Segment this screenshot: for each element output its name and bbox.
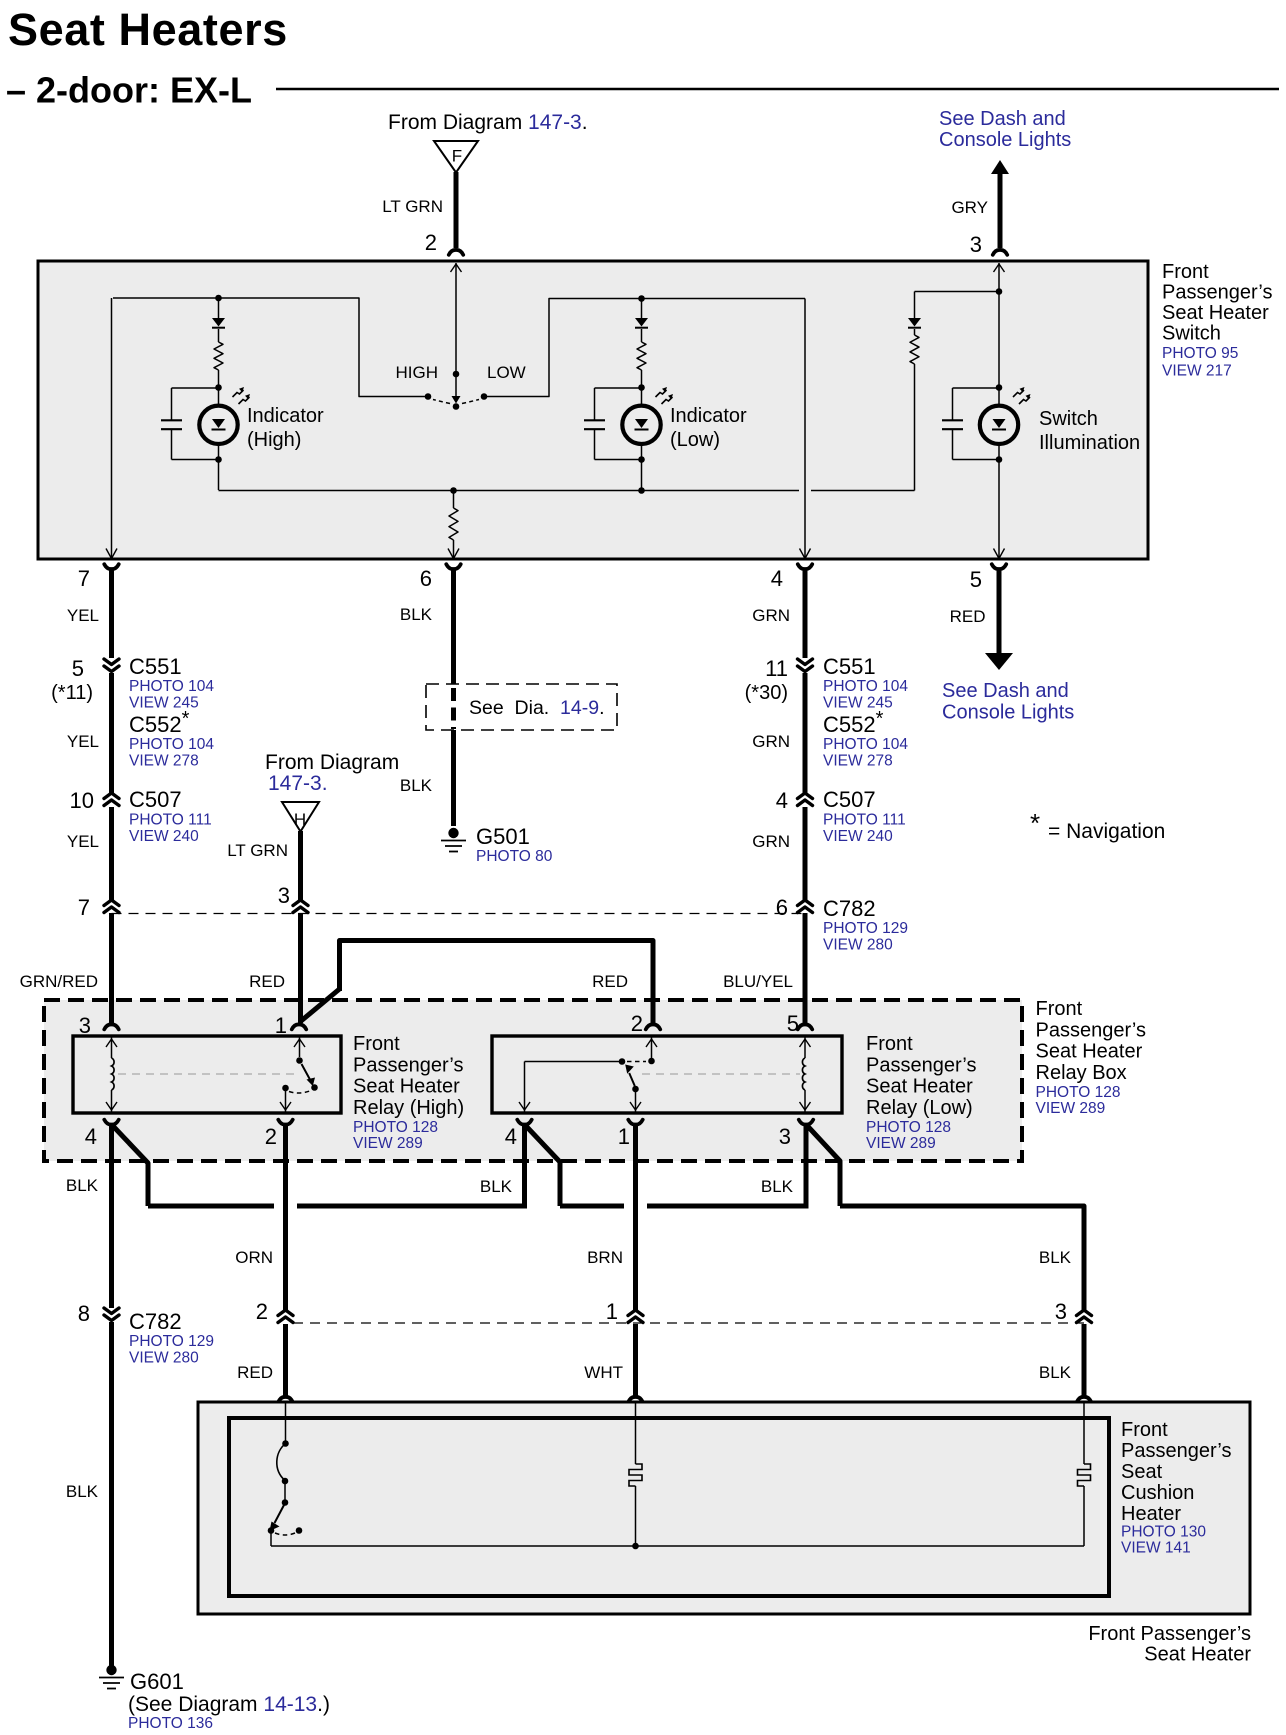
svg-text:– 2-door: EX-L: – 2-door: EX-L: [6, 70, 252, 111]
svg-text:Passenger’s: Passenger’s: [353, 1054, 463, 1076]
svg-text:C551: C551: [823, 654, 876, 679]
svg-text:See Dash and: See Dash and: [942, 680, 1069, 702]
junction node indicator high: [215, 295, 222, 302]
connector F (from diagram 147-3): [434, 141, 478, 173]
svg-text:Front: Front: [353, 1033, 400, 1055]
connector line C782 (dashed): [112, 913, 806, 915]
labels G501 / PHOTO 80: [476, 824, 553, 865]
wire BLK relay low pin 3 drop: [761, 1125, 806, 1209]
labels C507: [129, 787, 212, 845]
svg-text:Switch: Switch: [1039, 408, 1098, 430]
svg-text:YEL: YEL: [67, 606, 99, 625]
svg-text:3: 3: [970, 232, 982, 257]
connector C782 pin 3: [1055, 1299, 1092, 1324]
wire BLK relay low pin 4 jumper to relay low pin 3: [526, 1126, 807, 1206]
wire BLK C782 pin 8 to G601: [66, 1322, 112, 1666]
connector C782 pin 3: [278, 883, 308, 913]
svg-text:Seat Heater: Seat Heater: [1162, 302, 1269, 324]
wire RED relay high pin 1 to relay low pin 2: [301, 941, 653, 1024]
svg-text:VIEW 280: VIEW 280: [129, 1350, 199, 1367]
terminal relay low pin 1: [628, 1120, 642, 1125]
wire pin 7 vertical (inside switch): [106, 298, 117, 559]
terminal at switch pin 3: [993, 250, 1007, 255]
svg-text:HIGH: HIGH: [396, 363, 439, 382]
wire RED switch pin 5 to dash/console lights: [950, 564, 1013, 670]
svg-text:Cushion: Cushion: [1121, 1482, 1194, 1504]
terminal at switch pin 2: [449, 250, 463, 255]
svg-text:PHOTO 104: PHOTO 104: [129, 736, 214, 753]
wire LOW contact to pin 4 branch: [484, 299, 805, 397]
svg-text:Seat Heaters: Seat Heaters: [8, 4, 288, 55]
svg-text:Front: Front: [866, 1033, 913, 1055]
svg-text:Seat Heater: Seat Heater: [353, 1076, 460, 1098]
svg-text:7: 7: [78, 566, 90, 591]
svg-text:(*11): (*11): [51, 682, 93, 704]
front passenger's seat heater box (outer): [198, 1402, 1250, 1614]
connector H (from diagram 147-3): [282, 802, 319, 832]
wire pin 4 vertical (inside switch): [800, 299, 811, 559]
label Indicator (Low): [670, 405, 747, 451]
wire GRY to switch pin 3: [998, 172, 1003, 248]
relay low coil-contact link (dashed): [642, 1073, 800, 1075]
svg-text:RED: RED: [950, 607, 986, 626]
svg-text:C552*: C552*: [129, 708, 190, 737]
wire GRN/RED C782 to relay high pin 3: [20, 913, 112, 1023]
svg-text:6: 6: [420, 566, 432, 591]
svg-text:*: *: [1030, 808, 1040, 838]
svg-text:11: 11: [765, 656, 788, 681]
ground G501: [441, 828, 466, 852]
svg-text:BLU/YEL: BLU/YEL: [723, 972, 793, 991]
svg-text:G501: G501: [476, 824, 530, 849]
heater element (main): [629, 1402, 642, 1546]
relay high coil: [106, 1038, 117, 1112]
labels C782 (right): [823, 896, 908, 954]
label Indicator (High): [247, 405, 324, 451]
svg-text:VIEW 278: VIEW 278: [823, 753, 893, 770]
svg-text:VIEW 289: VIEW 289: [866, 1135, 936, 1152]
svg-text:LT GRN: LT GRN: [227, 841, 288, 860]
labels C782 (lower): [129, 1309, 214, 1367]
svg-text:4: 4: [505, 1124, 517, 1149]
title: Seat Heaters: [8, 4, 288, 55]
label: Front Passenger's Seat Cushion Heater: [1121, 1419, 1231, 1557]
svg-text:PHOTO 128: PHOTO 128: [866, 1119, 951, 1136]
front passenger's seat cushion heater box (inner): [229, 1418, 1109, 1596]
svg-text:Seat Heater: Seat Heater: [1144, 1644, 1251, 1666]
svg-text:(Low): (Low): [670, 429, 720, 451]
svg-text:Front: Front: [1162, 261, 1209, 283]
svg-text:1: 1: [618, 1124, 630, 1149]
svg-text:Front: Front: [1121, 1419, 1168, 1441]
svg-text:GRN: GRN: [752, 832, 790, 851]
svg-text:4: 4: [771, 566, 783, 591]
svg-text:10: 10: [70, 788, 94, 813]
relay high contact switch: [280, 1038, 318, 1112]
svg-text:Seat: Seat: [1121, 1461, 1163, 1483]
svg-text:2: 2: [256, 1299, 268, 1324]
svg-text:3: 3: [278, 883, 290, 908]
svg-text:5: 5: [72, 656, 84, 681]
svg-text:Heater: Heater: [1121, 1503, 1181, 1525]
bottom tie line of LED circuits: [219, 487, 915, 494]
terminal relay low pin 3: [799, 1120, 813, 1125]
svg-text:PHOTO 104: PHOTO 104: [823, 678, 908, 695]
wire WHT C782 pin 1 to heater: [584, 1324, 635, 1397]
svg-text:H: H: [294, 810, 306, 829]
svg-text:Illumination: Illumination: [1039, 432, 1140, 454]
svg-text:7: 7: [78, 895, 90, 920]
svg-text:PHOTO 104: PHOTO 104: [823, 736, 908, 753]
subtitle: 2-door EX-L: [6, 70, 252, 111]
note: * = Navigation: [1030, 808, 1165, 843]
svg-text:C782: C782: [823, 896, 876, 921]
svg-text:C552*: C552*: [823, 708, 884, 737]
svg-text:BLK: BLK: [66, 1482, 99, 1501]
svg-text:PHOTO 104: PHOTO 104: [129, 678, 214, 695]
label Switch Illumination: [1039, 408, 1140, 454]
svg-text:BLK: BLK: [480, 1177, 513, 1196]
relay high pin labels: [85, 1124, 277, 1149]
connector C507 pin 10: [70, 788, 119, 813]
svg-text:GRY: GRY: [951, 198, 988, 217]
front passenger's seat heater relay box (dashed): [44, 1000, 1022, 1161]
svg-text:From Diagram: From Diagram: [265, 751, 399, 774]
svg-text:PHOTO 111: PHOTO 111: [129, 812, 212, 829]
svg-text:(*30): (*30): [745, 682, 788, 704]
svg-text:Passenger’s: Passenger’s: [1162, 282, 1272, 304]
wire BLK relay low pin 3 jumper to heater: [808, 1126, 1085, 1311]
svg-text:Front Passenger’s: Front Passenger’s: [1088, 1623, 1251, 1645]
connector C782 pin 1: [606, 1299, 643, 1324]
svg-text:See Dash and: See Dash and: [939, 108, 1066, 130]
wire BRN relay low pin 1 to C782 pin 1: [587, 1125, 635, 1311]
svg-text:BRN: BRN: [587, 1248, 623, 1267]
svg-text:Relay (High): Relay (High): [353, 1097, 464, 1119]
connector C782 pin 8: [78, 1301, 119, 1326]
svg-text:GRN: GRN: [752, 606, 790, 625]
svg-text:RED: RED: [237, 1363, 273, 1382]
heater element (return): [1078, 1402, 1091, 1546]
terminal relay high pin 4: [104, 1120, 118, 1125]
svg-text:5: 5: [787, 1011, 799, 1036]
HIGH contact: [396, 363, 439, 400]
junction node indicator low: [638, 295, 645, 302]
wire YEL C507 to C782 pin 7: [67, 807, 112, 901]
wire BLU/YEL C782 to relay low pin 5: [723, 913, 805, 1023]
terminal relay low pin 5: [787, 1011, 812, 1036]
svg-text:PHOTO 111: PHOTO 111: [823, 812, 906, 829]
svg-text:Seat Heater: Seat Heater: [866, 1076, 973, 1098]
wire GRN C552 to C507 (right): [752, 673, 805, 793]
connector line C782 lower (dashed): [293, 1322, 1084, 1324]
wire HIGH contact to pin 7 branch: [113, 298, 428, 397]
svg-text:Console Lights: Console Lights: [942, 702, 1074, 724]
relay (high) body: [73, 1036, 341, 1113]
connector C551 pin 5: [51, 656, 119, 704]
wire BLK C782 pin 3 to heater: [1039, 1324, 1084, 1397]
label GRY: [951, 198, 988, 217]
label: Front Passenger's Seat Heater Relay (Low): [866, 1033, 976, 1152]
svg-text:RED: RED: [592, 972, 628, 991]
svg-text:BLK: BLK: [400, 776, 433, 795]
svg-text:VIEW 141: VIEW 141: [1121, 1540, 1191, 1557]
svg-text:RED: RED: [249, 972, 285, 991]
terminal relay low pin 4: [517, 1120, 531, 1125]
svg-text:ORN: ORN: [235, 1248, 273, 1267]
LOW contact: [481, 363, 526, 400]
wire BLK switch pin 6 to See Dia box: [400, 564, 461, 684]
terminal relay high pin 1: [275, 1013, 306, 1038]
labels C551 / C552*: [129, 654, 214, 770]
svg-text:3: 3: [79, 1013, 91, 1038]
svg-text:Relay (Low): Relay (Low): [866, 1097, 973, 1119]
label: See Dash and Console Lights (top): [939, 108, 1071, 151]
heater bus wire: [271, 1543, 1084, 1550]
svg-text:1: 1: [606, 1299, 618, 1324]
svg-text:WHT: WHT: [584, 1363, 623, 1382]
wire RED C782 pin 3 to relay high pin 1: [249, 913, 300, 1023]
wire YEL switch pin 7 to C551: [67, 570, 112, 658]
terminal relay high pin 2: [278, 1120, 292, 1125]
wire BLK through See Dia box to G501: [400, 688, 454, 826]
svg-text:G601: G601: [130, 1669, 184, 1694]
terminal relay low pin 2: [631, 1011, 660, 1036]
wire BLK relay high pin 4 jumper to relay low pin 4: [113, 1126, 527, 1206]
terminal relay high pin 3: [79, 1013, 119, 1038]
svg-text:BLK: BLK: [1039, 1363, 1072, 1382]
svg-text:PHOTO 136: PHOTO 136: [128, 1715, 213, 1732]
svg-text:5: 5: [970, 567, 982, 592]
svg-text:PHOTO 95: PHOTO 95: [1162, 345, 1238, 362]
svg-text:6: 6: [776, 895, 788, 920]
svg-text:C507: C507: [823, 787, 876, 812]
label: Front Passenger's Seat Heater Switch: [1162, 261, 1272, 380]
dashed box See Dia. 14-9: [426, 684, 617, 730]
svg-text:BLK: BLK: [400, 605, 433, 624]
svg-text:3: 3: [1055, 1299, 1067, 1324]
svg-text:Passenger’s: Passenger’s: [866, 1054, 976, 1076]
wire BLK relay low pin 4 drop: [480, 1125, 525, 1209]
label: From Diagram 147-3: [388, 111, 588, 134]
terminal switch pin 7: [78, 564, 119, 591]
labels G601 / See Diagram 14-13 / PHOTO 136: [128, 1669, 330, 1732]
svg-text:VIEW 240: VIEW 240: [823, 828, 893, 845]
svg-text:Seat Heater: Seat Heater: [1036, 1041, 1143, 1063]
relay low pin labels: [505, 1124, 791, 1149]
svg-text:PHOTO 128: PHOTO 128: [353, 1119, 438, 1136]
label LT GRN: [382, 197, 443, 216]
wire GRN switch pin 4 to C551: [752, 564, 812, 658]
switch illumination LED: [980, 387, 1031, 444]
svg-text:PHOTO 129: PHOTO 129: [823, 920, 908, 937]
svg-text:4: 4: [85, 1124, 97, 1149]
label: From Diagram 147-3 (H): [265, 751, 399, 795]
connector C782 pin 2: [256, 1299, 293, 1324]
svg-text:PHOTO 128: PHOTO 128: [1036, 1084, 1121, 1101]
relay (low) body: [492, 1036, 842, 1113]
wire from pin 2 to switch common: [451, 263, 462, 377]
terminal heater ground return: [1077, 1397, 1091, 1402]
front passenger's seat heater switch box: [38, 261, 1148, 559]
svg-text:2: 2: [425, 230, 437, 255]
svg-text:147-3.: 147-3.: [268, 772, 328, 795]
svg-text:GRN: GRN: [752, 732, 790, 751]
label: Front Passenger's Seat Heater Relay (High): [353, 1033, 464, 1152]
labels C551 / C552* (right): [823, 654, 908, 770]
svg-text:8: 8: [78, 1301, 90, 1326]
heater thermostat switch: [268, 1402, 303, 1546]
svg-text:LT GRN: LT GRN: [382, 197, 443, 216]
svg-text:C507: C507: [129, 787, 182, 812]
svg-text:YEL: YEL: [67, 832, 99, 851]
wire RED C782 pin 2 to heater: [237, 1324, 285, 1397]
wire ORN relay high pin 2 to C782 pin 2: [235, 1125, 285, 1311]
switch illumination diode + resistor branch: [908, 292, 999, 491]
svg-text:See Dia. 14-9.: See Dia. 14-9.: [469, 697, 605, 719]
svg-text:PHOTO 129: PHOTO 129: [129, 1333, 214, 1350]
svg-text:BLK: BLK: [761, 1177, 794, 1196]
svg-text:VIEW 289: VIEW 289: [353, 1135, 423, 1152]
connector C782 pin 6: [776, 895, 813, 920]
terminal heater element feed: [628, 1397, 642, 1402]
terminal heater thermostat feed: [278, 1397, 292, 1402]
relay low contact switch: [519, 1038, 657, 1112]
svg-text:C782: C782: [129, 1309, 182, 1334]
svg-text:2: 2: [265, 1124, 277, 1149]
svg-text:VIEW 280: VIEW 280: [823, 937, 893, 954]
svg-text:Indicator: Indicator: [670, 405, 747, 427]
svg-text:Relay Box: Relay Box: [1036, 1062, 1127, 1084]
wire pin 3 vertical with switch illumination: [994, 263, 1005, 404]
svg-text:LOW: LOW: [487, 363, 526, 382]
relay low coil: [800, 1038, 811, 1112]
svg-text:Passenger’s: Passenger’s: [1036, 1019, 1146, 1041]
svg-text:VIEW 240: VIEW 240: [129, 828, 199, 845]
arrow from dash/console lights: [991, 160, 1009, 174]
pin 2 label (switch): [425, 230, 437, 255]
svg-text:Switch: Switch: [1162, 323, 1221, 345]
wire LT GRN from connector F to switch pin 2: [454, 172, 459, 248]
svg-text:F: F: [452, 147, 462, 166]
svg-text:VIEW 289: VIEW 289: [1036, 1100, 1106, 1117]
indicator LED (High) with diode, resistor, capacitor: [161, 298, 250, 490]
pin 3 label (switch): [970, 232, 982, 257]
title rule line: [276, 88, 1279, 91]
svg-text:BLK: BLK: [1039, 1248, 1072, 1267]
svg-text:1: 1: [275, 1013, 287, 1038]
label: See Dash and Console Lights (mid): [942, 680, 1074, 724]
wire pin 5 vertical below LED: [994, 444, 1005, 559]
svg-text:From Diagram 147-3.: From Diagram 147-3.: [388, 111, 588, 134]
svg-text:Passenger’s: Passenger’s: [1121, 1440, 1231, 1462]
svg-text:2: 2: [631, 1011, 643, 1036]
svg-text:C551: C551: [129, 654, 182, 679]
svg-text:PHOTO 130: PHOTO 130: [1121, 1524, 1206, 1541]
svg-text:BLK: BLK: [66, 1176, 99, 1195]
svg-text:VIEW 278: VIEW 278: [129, 753, 199, 770]
wire YEL C552 to C507: [67, 673, 112, 793]
svg-text:(See Diagram 14-13.): (See Diagram 14-13.): [128, 1693, 330, 1716]
label: Front Passenger's Seat Heater (below box): [1088, 1623, 1251, 1666]
svg-text:Indicator: Indicator: [247, 405, 324, 427]
wire GRN C507 to C782 pin 6: [752, 807, 805, 901]
label: Front Passenger's Seat Heater Relay Box: [1036, 998, 1146, 1117]
indicator LED (Low) with diode, resistor, capacitor: [584, 298, 673, 490]
svg-text:VIEW 217: VIEW 217: [1162, 363, 1232, 380]
svg-text:3: 3: [779, 1124, 791, 1149]
wire LT GRN from connector H: [227, 831, 300, 901]
svg-text:(High): (High): [247, 429, 301, 451]
labels C507 (right): [823, 787, 906, 845]
switch wiper arm (HIGH/LOW selector): [433, 377, 479, 410]
connector C782 pin 7: [78, 895, 119, 920]
svg-text:Front: Front: [1036, 998, 1083, 1020]
resistor to pin 6: [448, 487, 459, 558]
wire BLK relay high pin 4 to C782 pin 8: [66, 1125, 112, 1308]
svg-text:= Navigation: = Navigation: [1048, 820, 1165, 843]
svg-text:Console Lights: Console Lights: [939, 129, 1071, 151]
svg-text:YEL: YEL: [67, 732, 99, 751]
svg-text:PHOTO 80: PHOTO 80: [476, 848, 553, 865]
connector C551 pin 11: [745, 656, 813, 704]
relay high coil-contact link (dashed): [118, 1073, 298, 1075]
ground G601: [99, 1665, 124, 1689]
connector C507 pin 4: [776, 788, 813, 813]
svg-text:GRN/RED: GRN/RED: [20, 972, 98, 991]
svg-text:4: 4: [776, 788, 788, 813]
switch illumination capacitor: [942, 388, 999, 460]
